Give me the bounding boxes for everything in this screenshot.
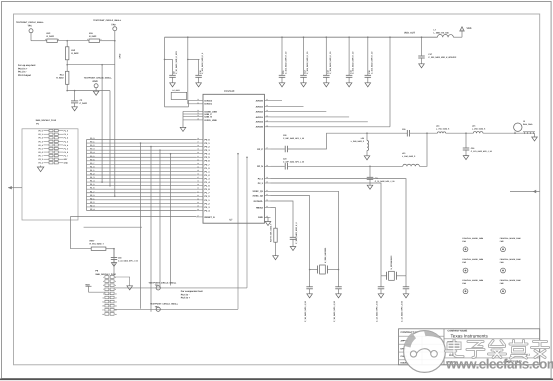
svg-text:L25: L25: [472, 125, 475, 128]
pin P0_2: [196, 146, 203, 148]
connector P5 pin row 2: [105, 280, 109, 283]
wire AVDD1: [271, 116, 350, 118]
svg-text:R_0402: R_0402: [47, 35, 55, 38]
pin P1_4: [196, 181, 203, 183]
wire TP1 to R12: [30, 33, 32, 41]
svg-text:P1_2: P1_2: [90, 173, 94, 176]
wire node A to P0 net: [67, 64, 115, 66]
wire op amp net 3: [114, 41, 116, 197]
svg-text:P1_6: P1_6: [205, 188, 211, 191]
svg-text:L_2N0_0402_S: L_2N0_0402_S: [351, 140, 365, 143]
svg-text:P2_3: P2_3: [38, 158, 42, 161]
wire L23 up join: [419, 133, 427, 166]
pin AVDD6: [264, 126, 270, 128]
pin DVDD_USB: [196, 119, 203, 121]
pin P0_5: [196, 156, 203, 158]
title block: [399, 329, 540, 365]
svg-text:TESTPOINT_CIRCLE_SMALL: TESTPOINT_CIRCLE_SMALL: [16, 21, 45, 24]
svg-text:P2_4: P2_4: [258, 178, 264, 181]
svg-text:C_12_0402_NP0_J_50: C_12_0402_NP0_J_50: [401, 300, 404, 322]
svg-text:P1_7: P1_7: [64, 155, 68, 158]
ground L20: [364, 156, 370, 160]
pin RF_P: [264, 148, 270, 150]
svg-text:L_7N5_0402_S: L_7N5_0402_S: [436, 127, 450, 130]
wire vertical riser 1: [140, 143, 142, 309]
wire net P1_7: [87, 192, 197, 194]
connector P5 pin row 9: [105, 309, 109, 312]
wire gnd node: [67, 90, 110, 92]
wire vertical riser 4: [170, 154, 172, 286]
pin USB_N: [196, 116, 203, 118]
svg-text:XOSC_Q1: XOSC_Q1: [253, 190, 264, 193]
wire P2_4: [271, 179, 407, 276]
pin P0_0: [196, 139, 203, 141]
svg-text:P0_7: P0_7: [90, 162, 94, 165]
wire comparator P0_4: [114, 308, 238, 310]
capacitor C60: [113, 248, 115, 250]
svg-text:P0_1: P0_1: [38, 133, 42, 136]
ground IC GND pin: [264, 217, 268, 221]
svg-text:P0_3: P0_3: [38, 140, 42, 143]
svg-text:F2: F2: [523, 120, 525, 123]
svg-text:C_1U0_0402_X5R_K_6: C_1U0_0402_X5R_K_6: [295, 222, 298, 244]
watermark logo circle: [404, 331, 446, 373]
wire net P1_0: [87, 167, 197, 169]
ground USB: [180, 127, 186, 131]
connector P1 pin row 4: [49, 140, 53, 142]
pin P0_7: [196, 163, 203, 165]
svg-text:R_0402: R_0402: [56, 77, 64, 80]
capacitor C27: [380, 276, 382, 287]
wire net P2_1: [87, 199, 197, 201]
svg-text:P2_0: P2_0: [205, 195, 211, 198]
svg-text:AVDD2: AVDD2: [256, 111, 264, 114]
svg-text:R_0402: R_0402: [71, 52, 79, 55]
pin USB_P: [196, 113, 203, 115]
wire net P2_0: [87, 195, 197, 197]
svg-text:P1_3: P1_3: [90, 176, 94, 179]
svg-text:TESTPOINT_CIRCLE_SMALL: TESTPOINT_CIRCLE_SMALL: [93, 19, 122, 22]
connector P1 pin row 8: [49, 154, 53, 156]
wire net P1_4: [87, 181, 197, 183]
connector P1 pin row 10: [49, 162, 53, 164]
capacitor C28: [405, 276, 407, 287]
svg-text:AVDD3: AVDD3: [256, 106, 264, 109]
svg-text:P1_7: P1_7: [205, 192, 211, 195]
svg-text:P1_3: P1_3: [64, 140, 68, 143]
svg-text:P1_0: P1_0: [64, 130, 68, 133]
svg-text:C_16_0402_NP0_J_50: C_16_0402_NP0_J_50: [118, 259, 138, 262]
wire RESET to P5: [113, 249, 115, 276]
capacitor C23: [271, 165, 285, 167]
wire net P2_3: [87, 206, 197, 208]
svg-text:P2_3: P2_3: [90, 204, 94, 207]
pin P2_4: [264, 178, 270, 180]
wire net P0_0: [87, 139, 197, 141]
svg-text:SMD_SOCKET_2X10: SMD_SOCKET_2X10: [95, 273, 116, 276]
watermark CJK text: [446, 340, 464, 357]
connector P5 pin row 3: [105, 284, 109, 287]
connector P1 pin row 5: [49, 144, 53, 146]
connector P5 pin row 10: [105, 313, 109, 316]
wire AVDD5: [271, 100, 283, 102]
svg-text:FIDUCIAL_MARK_1MM: FIDUCIAL_MARK_1MM: [462, 279, 483, 282]
svg-text:P0.5 In +: P0.5 In +: [181, 297, 191, 300]
svg-text:CC2540: CC2540: [224, 89, 235, 93]
svg-text:C_18_0402_NP0_J_50: C_18_0402_NP0_J_50: [333, 300, 336, 322]
pin P1_6: [196, 188, 203, 190]
svg-text:P2_2: P2_2: [90, 201, 94, 204]
pin AVDD1: [264, 116, 270, 118]
svg-text:FIDUCIAL_MARK_1MM: FIDUCIAL_MARK_1MM: [500, 237, 521, 240]
svg-text:C_0402: C_0402: [80, 102, 88, 105]
pin P1_3: [196, 178, 203, 180]
wire net P0_5: [87, 156, 197, 158]
svg-text:For op amp test:: For op amp test:: [18, 64, 36, 67]
wire net P2_2: [87, 202, 197, 204]
svg-text:P0.2 Output: P0.2 Output: [18, 74, 31, 77]
pin DVDD2: [196, 100, 203, 102]
svg-text:L_2N0_0402_S: L_2N0_0402_S: [472, 127, 486, 130]
svg-text:FM2: FM2: [500, 240, 504, 243]
capacitor C2: [74, 91, 76, 101]
pin P0_6: [196, 160, 203, 162]
svg-text:P0_0: P0_0: [205, 138, 211, 141]
svg-text:P0_7: P0_7: [205, 163, 211, 166]
svg-text:C22: C22: [283, 134, 286, 137]
svg-text:AVDD5: AVDD5: [256, 100, 264, 103]
wire AVDD6: [271, 126, 391, 128]
svg-text:P0_5: P0_5: [38, 147, 42, 150]
svg-text:C_75_0402_NP0_J_50: C_75_0402_NP0_J_50: [375, 180, 395, 183]
svg-text:P0_5: P0_5: [205, 156, 211, 159]
inductor L6 DVDD filter: [164, 59, 166, 107]
ground C25: [367, 185, 373, 189]
svg-text:P2_3: P2_3: [205, 206, 211, 209]
svg-text:P1_4: P1_4: [205, 181, 211, 184]
svg-text:TESTPOINT_CIRCLE_SMALL: TESTPOINT_CIRCLE_SMALL: [84, 76, 113, 79]
svg-text:P1_6: P1_6: [90, 187, 94, 190]
wire XOSC_Q1: [271, 191, 339, 269]
pin P2_4: [196, 210, 203, 212]
svg-text:SMA_SMD: SMA_SMD: [523, 123, 533, 126]
pin P1_7: [196, 192, 203, 194]
pin P1_1: [196, 170, 203, 172]
svg-text:C_18P_0402_NP0_J_50: C_18P_0402_NP0_J_50: [283, 137, 304, 140]
pin P0_4: [196, 153, 203, 155]
wire USB nets: [183, 110, 196, 112]
ground antenna: [534, 133, 536, 137]
svg-text:AVDD4: AVDD4: [256, 121, 264, 124]
svg-text:FIDUCIAL_MARK_1MM: FIDUCIAL_MARK_1MM: [462, 237, 483, 240]
wire VDD rail: [165, 36, 438, 38]
op-amp U7 CC2540 IC body: [203, 94, 264, 223]
svg-text:P1_0: P1_0: [205, 167, 211, 170]
svg-text:X_32768K0612: X_32768K0612: [390, 255, 393, 270]
svg-text:P0.0 In +: P0.0 In +: [18, 67, 28, 70]
connector P1 pin row 3: [49, 137, 53, 139]
svg-text:GND: GND: [93, 80, 98, 83]
pin P1_0: [196, 167, 203, 169]
svg-text:DCOUPL: DCOUPL: [254, 200, 264, 203]
svg-text:P0_2: P0_2: [38, 137, 42, 140]
svg-text:P0_0: P0_0: [90, 137, 94, 140]
wire net P0_7: [87, 163, 197, 165]
svg-text:TESTPOINT_CIRCLE_SMALL: TESTPOINT_CIRCLE_SMALL: [150, 302, 179, 305]
svg-text:FM5: FM5: [462, 282, 466, 285]
wire RESET_N: [71, 217, 197, 249]
connector P1 pin row 9: [49, 158, 53, 160]
wire net P1_6: [87, 188, 197, 190]
pin P2_0: [196, 195, 203, 197]
svg-text:FIDUCIAL_MARK_1MM: FIDUCIAL_MARK_1MM: [500, 258, 521, 261]
svg-text:P0_7: P0_7: [38, 155, 42, 158]
svg-text:P0.4 In -: P0.4 In -: [181, 293, 190, 296]
pin AVDD2: [264, 111, 270, 113]
capacitor C31 DCOUPL: [271, 201, 294, 237]
ground P5: [114, 277, 130, 286]
connector P5 pin row 7: [105, 300, 109, 303]
connector P5 pin row 8: [105, 304, 109, 307]
ground C26: [463, 156, 469, 160]
pin P2_2: [196, 202, 203, 204]
svg-text:COMPANY NAME: COMPANY NAME: [448, 330, 468, 333]
svg-text:L6_0603: L6_0603: [173, 89, 180, 92]
svg-text:SMD_SOCKET_2X10: SMD_SOCKET_2X10: [36, 119, 57, 122]
svg-text:FM1: FM1: [462, 240, 466, 243]
svg-text:FM6: FM6: [500, 282, 504, 285]
pin RF_N: [264, 165, 270, 167]
svg-text:P1_3: P1_3: [205, 177, 211, 180]
pin P0_3: [196, 149, 203, 151]
bus gather line: [86, 140, 88, 211]
connector F2 SMA: [514, 132, 516, 134]
svg-text:P0.1 In -: P0.1 In -: [18, 71, 27, 74]
svg-text:P0_3: P0_3: [90, 148, 94, 151]
wire AVDD3: [271, 106, 304, 108]
capacitor C11: [281, 37, 283, 75]
wire op amp net 1: [101, 65, 103, 182]
svg-text:XOSC_Q2: XOSC_Q2: [253, 195, 264, 198]
pin XOSC_Q2: [264, 195, 270, 197]
ground below C2: [72, 107, 78, 111]
svg-text:USB_P: USB_P: [205, 113, 213, 116]
svg-text:P2_1: P2_1: [205, 199, 211, 202]
svg-text:For comparator test:: For comparator test:: [181, 290, 204, 293]
pin AVDD3: [264, 106, 270, 108]
svg-text:C_18_0402_NP0_J_50: C_18_0402_NP0_J_50: [304, 300, 307, 322]
connector P1 pin row 2: [49, 133, 53, 135]
svg-text:L23: L23: [402, 152, 405, 155]
svg-text:P0_6: P0_6: [38, 151, 42, 154]
svg-text:DVDD1: DVDD1: [205, 103, 213, 106]
pin P2_1: [196, 199, 203, 201]
wire L24 to L25: [446, 132, 474, 134]
svg-text:TESTPOINT_CIRCLE_SMALL: TESTPOINT_CIRCLE_SMALL: [149, 281, 178, 284]
pin AVDD4: [264, 121, 270, 123]
wire mystery h: [84, 226, 142, 228]
svg-text:P1_5: P1_5: [90, 183, 94, 186]
svg-text:RF_N: RF_N: [257, 165, 263, 168]
wire P2_3: [271, 183, 382, 276]
svg-text:AVDD6: AVDD6: [256, 126, 264, 129]
svg-text:P1_2: P1_2: [64, 137, 68, 140]
wire net P0_6: [87, 160, 197, 162]
capacitor C13: [325, 37, 327, 75]
wire C20 to L24: [410, 132, 438, 134]
wire R12 to node A: [57, 40, 89, 42]
svg-text:P1_2: P1_2: [205, 174, 211, 177]
connector P5 pin row 4: [105, 288, 109, 291]
svg-text:P1_5: P1_5: [64, 147, 68, 150]
wire XOSC_Q2: [271, 196, 310, 270]
pin DVDD1: [196, 103, 203, 105]
svg-text:C_10_0402_X5R_K_6P3: C_10_0402_X5R_K_6P3: [175, 51, 178, 74]
svg-text:P2_3: P2_3: [258, 182, 264, 185]
wire R11 to TP2 drop: [100, 40, 115, 42]
wire RF_P match: [288, 133, 408, 149]
capacitor C19: [338, 270, 340, 287]
svg-text:RESET_N: RESET_N: [205, 216, 216, 219]
off-page arrow left frame: [8, 187, 22, 189]
svg-text:TP1: TP1: [28, 25, 33, 28]
svg-text:R_0402: R_0402: [89, 35, 97, 38]
svg-text:www.elecfans.com: www.elecfans.com: [445, 357, 553, 372]
svg-text:C26: C26: [471, 147, 474, 150]
svg-text:GND: GND: [258, 216, 263, 219]
svg-text:P0_5: P0_5: [90, 155, 94, 158]
svg-text:L_0603_RS_040: L_0603_RS_040: [434, 31, 450, 34]
svg-text:P0_2: P0_2: [205, 146, 211, 149]
wire net P0_2: [87, 146, 197, 148]
svg-text:L_1N6_0402_S: L_1N6_0402_S: [402, 155, 416, 158]
power VDD: [461, 30, 463, 38]
svg-text:VDD: VDD: [85, 283, 90, 286]
wire cap feed left: [164, 37, 166, 59]
wire DVDD feed: [187, 37, 189, 104]
svg-text:P1_0: P1_0: [90, 165, 94, 168]
pin AVDD5: [264, 100, 270, 102]
capacitor C22: [271, 148, 285, 150]
svg-text:AVDD1: AVDD1: [256, 116, 264, 119]
svg-text:C60: C60: [118, 256, 121, 259]
connector group box: [22, 129, 78, 220]
svg-text:C_12_0402_NP0_J_50: C_12_0402_NP0_J_50: [376, 300, 379, 322]
capacitor C15: [367, 37, 369, 75]
svg-text:USB_N: USB_N: [205, 116, 213, 119]
pin XOSC_Q1: [264, 190, 270, 192]
connector P5 pin row 5: [105, 292, 109, 295]
svg-text:P1_1: P1_1: [205, 170, 211, 173]
capacitor C12: [303, 37, 305, 75]
node A junction: [66, 40, 68, 42]
pin RESET_N: [196, 216, 203, 218]
svg-text:P0_1: P0_1: [90, 141, 94, 144]
svg-text:P2_4: P2_4: [205, 209, 211, 212]
wire net P2_4: [87, 210, 197, 212]
wire L7 to VDD: [453, 36, 462, 38]
wire net P0_3: [87, 149, 197, 151]
capacitor C26 shunt: [465, 132, 467, 134]
svg-text:FM3: FM3: [462, 261, 466, 264]
svg-text:P0_1: P0_1: [205, 142, 211, 145]
capacitor C18: [309, 270, 311, 287]
svg-text:C_1P1_0402_NP0_J_50: C_1P1_0402_NP0_J_50: [471, 150, 492, 153]
connector P5 pin row 6: [105, 296, 109, 299]
svg-text:DVDD_USB: DVDD_USB: [205, 119, 217, 122]
svg-text:GND: GND: [64, 162, 69, 165]
wire L25 to antenna: [483, 132, 535, 134]
wire vertical riser 2: [150, 147, 152, 312]
pin DCOUPL: [264, 200, 270, 202]
pin P2_3: [196, 206, 203, 208]
svg-text:X_32M_0402059: X_32M_0402059: [324, 247, 327, 263]
svg-text:P2_2: P2_2: [205, 202, 211, 205]
svg-text:SPIO: SPIO: [119, 53, 122, 58]
svg-text:P0_4: P0_4: [205, 153, 211, 156]
wire net P0_4: [87, 153, 197, 155]
connector P5 pin row 1: [105, 276, 109, 279]
capacitor C25 shunt: [369, 166, 371, 168]
wire RF_N match: [288, 165, 403, 167]
svg-text:P2_1: P2_1: [90, 197, 94, 200]
svg-text:P1_1: P1_1: [90, 169, 94, 172]
pin P1_2: [196, 174, 203, 176]
svg-text:R_001_0402_T: R_001_0402_T: [90, 243, 105, 246]
wire net P1_5: [87, 185, 197, 187]
connector P1 pin row 7: [49, 151, 53, 153]
svg-text:RF_P: RF_P: [257, 148, 263, 151]
svg-text:P2_0: P2_0: [90, 194, 94, 197]
pin P0_1: [196, 142, 203, 144]
connector P1 pin row 6: [49, 147, 53, 149]
svg-text:R27 R_56K_0402_T: R27 R_56K_0402_T: [270, 223, 273, 242]
svg-text:P1_7: P1_7: [90, 190, 94, 193]
svg-text:VDD: VDD: [467, 27, 472, 30]
svg-text:TP2: TP2: [111, 23, 116, 26]
inductor L20 shunt: [366, 132, 368, 134]
svg-text:DGND_USB: DGND_USB: [205, 110, 218, 113]
svg-text:C_222_0402_X5R_K_6P3VDC: C_222_0402_X5R_K_6P3VDC: [428, 56, 456, 59]
svg-text:P0_2: P0_2: [90, 144, 94, 147]
pin GND: [264, 216, 270, 218]
ground below TP GND: [93, 91, 99, 95]
svg-text:L20: L20: [361, 137, 364, 140]
capacitor C8: [172, 59, 174, 75]
capacitor C14: [348, 37, 350, 75]
svg-text:FIDUCIAL_MARK_1MM: FIDUCIAL_MARK_1MM: [462, 258, 483, 261]
svg-text:P0_6: P0_6: [205, 160, 211, 163]
svg-text:P0_0: P0_0: [38, 130, 42, 133]
wire net P0_1: [87, 142, 197, 144]
pin DGND_USB: [196, 110, 203, 112]
pin P1_5: [196, 185, 203, 187]
svg-text:FIDUCIAL_MARK_1MM: FIDUCIAL_MARK_1MM: [500, 279, 521, 282]
svg-text:R007: R007: [90, 240, 96, 243]
svg-text:P0_6: P0_6: [90, 158, 94, 161]
ground below P1: [40, 166, 42, 168]
svg-text:RBIAS: RBIAS: [256, 207, 263, 210]
svg-text:C_18P_0402_NP0_J_50: C_18P_0402_NP0_J_50: [283, 160, 304, 163]
wire net P1_2: [87, 174, 197, 176]
wire comparator P0_5: [114, 287, 247, 289]
svg-text:P1_6: P1_6: [64, 151, 68, 154]
wire AVDD4: [271, 121, 368, 123]
wire net P1_1: [87, 170, 197, 172]
off-page arrow right frame: [510, 191, 540, 193]
svg-text:P1_1: P1_1: [64, 133, 68, 136]
ground below C17: [419, 64, 425, 68]
